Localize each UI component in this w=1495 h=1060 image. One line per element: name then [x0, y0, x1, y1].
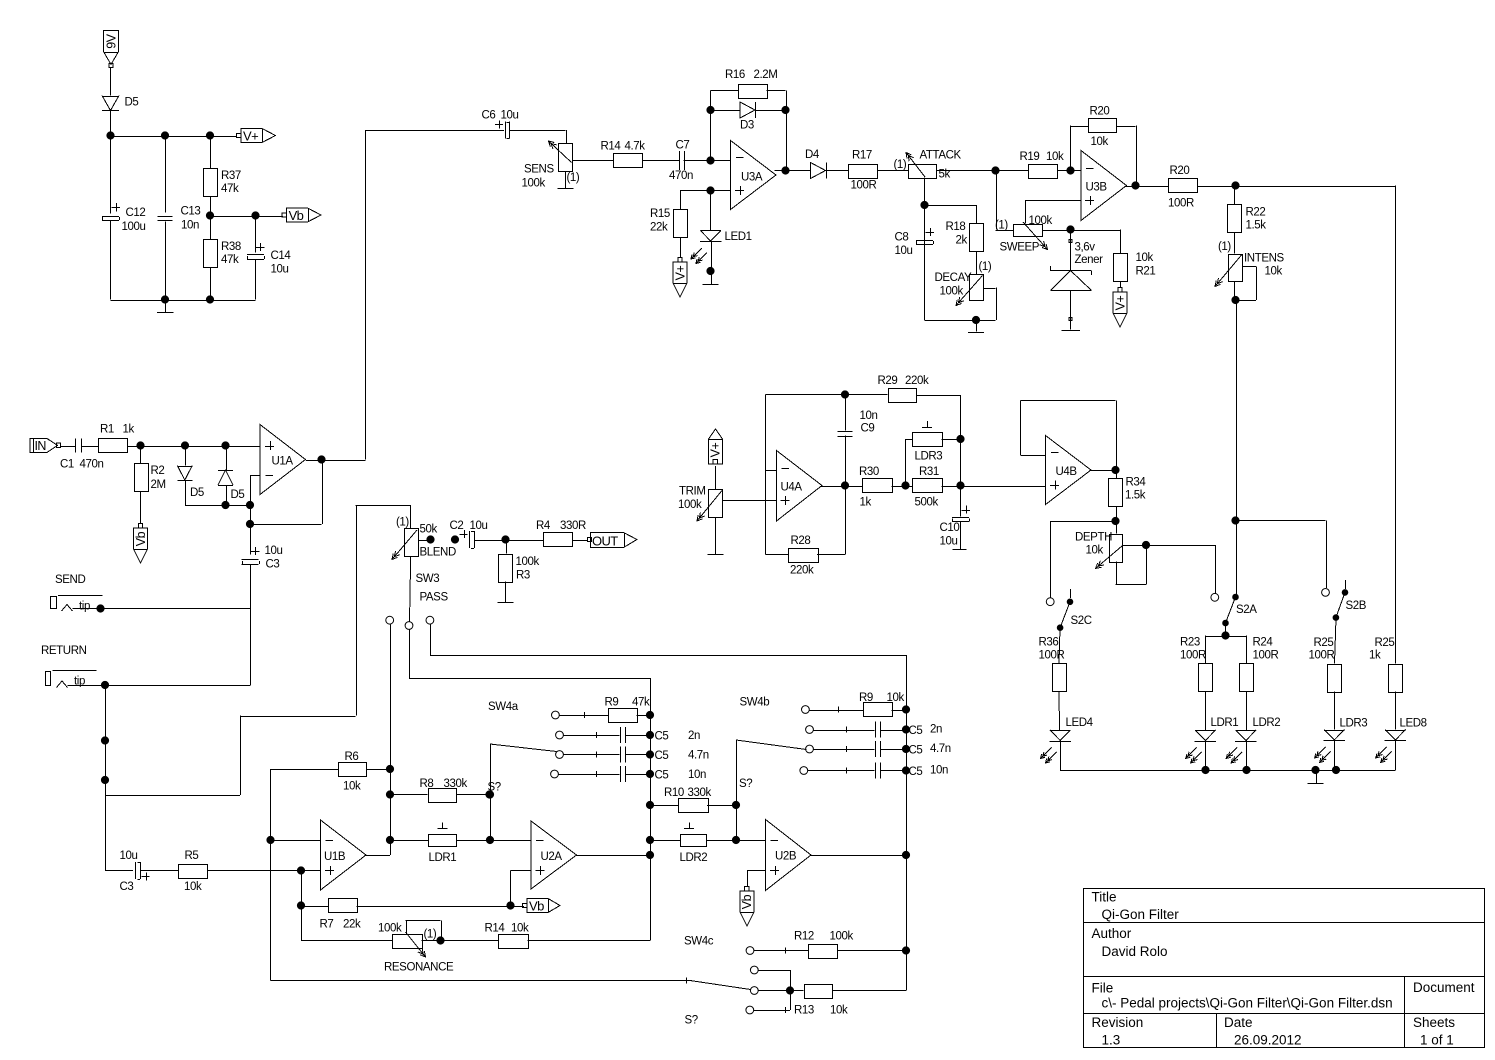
svg-text:330k: 330k: [688, 787, 712, 799]
wire fb junction: [250, 505, 252, 524]
wire C1 to R1: [81, 446, 98, 448]
wire C13 to gnd rail: [165, 222, 167, 300]
node U1B minus: [267, 836, 274, 843]
resistor R13 10k: [794, 985, 848, 1017]
pot ATTACK body: [894, 150, 962, 181]
node sweep bus top: [1232, 182, 1239, 189]
resistor R30 1k: [859, 466, 893, 509]
wire clip rail: [185, 505, 250, 507]
svg-text:Vb: Vb: [740, 894, 754, 909]
svg-text:LED8: LED8: [1400, 718, 1427, 730]
switch SW4c contact 4: [746, 1006, 754, 1014]
node lfo out: [957, 482, 964, 489]
resistor R38 47k: [204, 240, 241, 268]
capacitor C5 2n a: [621, 727, 701, 743]
wire SW3 c1 down: [390, 625, 392, 770]
switch S2B lever: [1333, 592, 1367, 620]
pot ATTACK arrow: [906, 153, 925, 178]
node sw4a bus 2: [646, 731, 653, 738]
switch S2B contact right: [1342, 580, 1348, 595]
diode D4: [805, 149, 827, 179]
svg-text:R18: R18: [946, 221, 966, 233]
svg-text:500k: 500k: [915, 497, 939, 509]
svg-text:R29: R29: [878, 375, 898, 387]
switch SW4c contact 1: [746, 947, 754, 955]
ldr LDR2 led: [1226, 717, 1280, 763]
node sw4a bus 1: [646, 711, 653, 718]
svg-text:R6: R6: [345, 751, 359, 763]
capacitor C13 10n: [158, 206, 201, 232]
svg-text:10k: 10k: [1086, 545, 1104, 557]
op-amp U2B: [766, 820, 812, 891]
resistor R9b 10k: [859, 692, 904, 717]
svg-text:2M: 2M: [151, 479, 166, 491]
wire R8 left: [390, 794, 428, 796]
svg-text:BLEND: BLEND: [420, 547, 456, 559]
pin tick sw4a1: [584, 712, 586, 718]
svg-text:100R: 100R: [1309, 650, 1335, 662]
svg-text:C7: C7: [676, 140, 690, 152]
switch SW4b contact 1: [802, 706, 810, 714]
svg-text:10k: 10k: [184, 881, 202, 893]
output flag OUT: [587, 537, 591, 541]
svg-text:RESONANCE: RESONANCE: [384, 962, 454, 974]
wire R6 right: [366, 769, 391, 855]
svg-text:IN: IN: [35, 439, 47, 453]
node return tip: [101, 681, 108, 688]
node rail c: [1312, 766, 1319, 773]
svg-text:2k: 2k: [956, 235, 968, 247]
zener pin marker 2: [1069, 317, 1072, 320]
node U1A fb: [246, 520, 253, 527]
wire R6 left: [271, 769, 339, 771]
wire RETURN tip: [68, 685, 251, 687]
node depth wiper: [1142, 541, 1149, 548]
wire S2C to R36: [1059, 628, 1060, 663]
svg-text:1k: 1k: [860, 497, 872, 509]
node return a: [101, 737, 108, 744]
wire R7 bus: [301, 871, 303, 941]
svg-text:1k: 1k: [123, 424, 135, 436]
svg-text:R22: R22: [1246, 207, 1266, 219]
pot SWEEP arrow: [1023, 222, 1048, 250]
jack RETURN: [46, 671, 97, 688]
capacitor C5 10n a: [621, 766, 707, 782]
pot INTENS body: [1218, 241, 1285, 282]
wire INTENS bottom: [1234, 281, 1236, 300]
resistor R5 10k: [179, 850, 208, 893]
svg-text:(1): (1): [567, 172, 580, 184]
title block: [1083, 889, 1485, 1048]
resistor R4 330R: [536, 520, 586, 547]
wire U2A plus: [511, 870, 531, 872]
wire TRIM wiper to U4A plus: [723, 500, 777, 502]
resistor R24 100R: [1240, 637, 1279, 692]
wire C3 to send: [250, 565, 252, 609]
led LED8: [1376, 718, 1427, 763]
resistor R20 10k fb: [1089, 106, 1117, 149]
node sw4a lever: [486, 791, 493, 798]
wire DEPTH loop: [1116, 545, 1147, 585]
resistor R1 1k: [99, 424, 135, 453]
svg-text:R30: R30: [859, 466, 879, 478]
svg-text:100R: 100R: [1168, 198, 1194, 210]
ldr LDR1 led: [1186, 717, 1239, 763]
svg-text:330R: 330R: [560, 520, 586, 532]
svg-text:DECAY: DECAY: [935, 272, 972, 284]
wire R31 to U4B: [942, 486, 1046, 488]
wire LDR3 to rail: [1334, 740, 1336, 770]
wire R37 to Vb node: [210, 196, 212, 216]
wire zener top: [1070, 230, 1072, 271]
wire C5 4.7n b to bus: [880, 749, 906, 751]
wire node to D5a: [185, 446, 187, 466]
svg-text:Sheets: Sheets: [1413, 1015, 1455, 1030]
svg-text:100k: 100k: [378, 923, 402, 935]
wire LED1 to gnd: [711, 241, 713, 285]
wire C5 2n b to bus: [880, 730, 906, 732]
node depth top: [1112, 517, 1119, 524]
wire C5 10n a to bus: [625, 774, 650, 776]
wire bus to R22: [1234, 186, 1236, 205]
pot SENS body: [522, 144, 580, 190]
svg-text:2n: 2n: [930, 724, 942, 736]
wire to R15: [680, 191, 682, 210]
ground LED1: [703, 284, 719, 286]
resistor R7 22k: [320, 899, 361, 931]
wire LDR2 right w: [707, 840, 766, 842]
svg-text:R16: R16: [725, 69, 745, 81]
svg-text:D5: D5: [125, 97, 139, 109]
ground R3: [498, 602, 514, 604]
wire U2B plus w: [747, 871, 765, 888]
capacitor C3 10u: [242, 545, 283, 571]
svg-text:(1): (1): [995, 220, 1008, 232]
pot RESONANCE arrow: [406, 932, 426, 957]
svg-text:C5: C5: [655, 731, 669, 743]
wire intens bus down: [1236, 300, 1238, 594]
node R30 R31: [902, 482, 909, 489]
wire SW4a c1 to R9: [560, 715, 609, 717]
wire D5a to clip rail: [185, 480, 187, 505]
wire sw4a bus: [650, 678, 652, 941]
wire D5 to V+ rail: [110, 111, 112, 136]
svg-text:C5: C5: [909, 725, 923, 737]
wire U3B out: [1125, 186, 1169, 188]
wire Vb to R38: [210, 216, 212, 240]
wire split right: [1246, 636, 1248, 664]
svg-text:10u: 10u: [501, 110, 519, 122]
wire SW4b c1 to R9b: [810, 710, 864, 712]
wire R28 left: [766, 554, 789, 556]
op-amp U1A: [260, 425, 306, 495]
wire SW3 c2 down: [409, 630, 651, 716]
svg-text:Author: Author: [1092, 926, 1132, 941]
svg-text:LDR2: LDR2: [680, 852, 708, 864]
svg-text:U4B: U4B: [1056, 466, 1078, 478]
wire SWEEP left: [996, 230, 1014, 232]
wire U1A out: [306, 460, 366, 462]
pin tick sw4c4: [785, 1007, 787, 1013]
wire V+ to TRIM: [715, 466, 717, 489]
svg-text:R3: R3: [516, 570, 530, 582]
svg-text:Document: Document: [1413, 980, 1475, 995]
svg-text:Revision: Revision: [1092, 1015, 1144, 1030]
svg-text:SWEEP: SWEEP: [1000, 242, 1040, 254]
wire bus to S2B: [1236, 521, 1327, 589]
svg-text:SW4a: SW4a: [488, 701, 519, 713]
wire U3B plus: [1025, 201, 1081, 224]
wire R10 right w: [707, 805, 736, 807]
node intens out: [1232, 296, 1239, 303]
wire R13 right w: [833, 951, 907, 991]
svg-text:4.7n: 4.7n: [930, 743, 951, 755]
wire s2 right vert: [736, 740, 738, 840]
wire SW4b c4 to C5: [808, 770, 875, 772]
svg-text:470n: 470n: [669, 170, 693, 182]
switch SW4a contact 4: [551, 770, 559, 778]
wire DEPTH wiper: [1123, 545, 1216, 594]
svg-text:C5: C5: [909, 745, 923, 757]
wire C9 bottom: [845, 436, 847, 486]
svg-text:R15: R15: [650, 208, 670, 220]
wire to R18: [925, 205, 977, 223]
pin tick sw4c1: [785, 948, 787, 954]
node send tip: [97, 605, 104, 612]
switch SW4a lever: [490, 744, 557, 752]
switch S2C contact right: [1067, 589, 1073, 605]
svg-text:100R: 100R: [1180, 650, 1206, 662]
svg-text:LDR3: LDR3: [1340, 718, 1368, 730]
svg-text:1.5k: 1.5k: [1125, 490, 1146, 502]
svg-text:S2C: S2C: [1071, 615, 1092, 627]
resistor R16 2.2M: [725, 69, 777, 99]
wire to S2C: [1050, 521, 1116, 598]
switch S2A contact right: [1233, 584, 1239, 600]
svg-text:R14: R14: [485, 923, 506, 935]
switch SW4a contact 1: [552, 711, 560, 719]
node LDR2 left: [646, 836, 653, 843]
vb pin marker: [523, 903, 527, 907]
switch SW4b contact 2: [806, 726, 814, 734]
wire LDR1 right: [457, 840, 531, 842]
wire U1B minus: [271, 840, 321, 842]
wire C9 top: [845, 395, 847, 431]
svg-text:C12: C12: [126, 207, 146, 219]
svg-text:(1): (1): [979, 261, 992, 273]
svg-text:3,6v: 3,6v: [1075, 242, 1096, 254]
svg-text:C3: C3: [266, 559, 280, 571]
resistor R23 100R: [1180, 637, 1213, 692]
capacitor C3b 10u: [120, 850, 150, 893]
svg-text:SENS: SENS: [524, 164, 554, 176]
node U2A out: [646, 851, 653, 858]
svg-text:V+: V+: [673, 265, 687, 280]
node stage1 fb a: [386, 765, 393, 772]
node V+ a: [107, 132, 114, 139]
capacitor C8 10u: [895, 228, 935, 257]
capacitor C12 100u: [102, 203, 145, 233]
wire supply gnd rail: [111, 300, 256, 302]
switch S2A lever: [1223, 597, 1258, 626]
svg-text:S?: S?: [685, 1015, 698, 1027]
svg-text:330k: 330k: [444, 778, 468, 790]
wire fb top right: [767, 91, 787, 171]
svg-text:100R: 100R: [851, 180, 877, 192]
node R10 left: [646, 801, 653, 808]
svg-text:V+: V+: [1113, 295, 1127, 310]
wire R15 to V+ flag: [680, 237, 682, 257]
wire sw4c lever long: [271, 980, 691, 982]
switch SW4b contact 4: [800, 767, 808, 775]
svg-text:SW4b: SW4b: [740, 697, 770, 709]
wire R20 to right bus: [1197, 186, 1396, 188]
svg-text:DEPTH: DEPTH: [1075, 532, 1112, 544]
jack SEND: [51, 596, 103, 613]
capacitor C1 470n: [60, 439, 103, 471]
op-amp U3A labels: [735, 158, 763, 196]
pin tick sw4a4: [596, 771, 598, 777]
svg-text:22k: 22k: [650, 222, 668, 234]
resistor R31 500k: [913, 466, 943, 509]
wire U4A out: [821, 486, 863, 488]
node in b: [181, 442, 188, 449]
op-amp U3A: [731, 141, 777, 210]
zener pin marker: [1069, 239, 1072, 242]
node U2B out: [902, 851, 909, 858]
svg-text:C6: C6: [482, 110, 496, 122]
wire SENS wiper to R14: [572, 160, 613, 162]
svg-text:R9: R9: [605, 697, 619, 709]
svg-text:10k: 10k: [830, 1005, 848, 1017]
wire R22 to INTENS: [1234, 233, 1236, 254]
svg-text:C1: C1: [60, 459, 74, 471]
svg-text:100k: 100k: [830, 931, 854, 943]
switch S2C contact left: [1046, 598, 1054, 606]
svg-text:LDR1: LDR1: [1211, 717, 1239, 729]
svg-text:Vb: Vb: [134, 531, 148, 546]
svg-text:C3: C3: [120, 881, 134, 893]
wire led gnd rail: [1060, 770, 1396, 772]
switch SW4c contact 2: [750, 966, 758, 974]
svg-text:Zener: Zener: [1075, 254, 1104, 266]
wire V+ to C12: [110, 136, 112, 214]
node R12 right: [902, 947, 909, 954]
wire U1A feedback: [250, 460, 323, 525]
wire BLEND to SW3: [410, 556, 412, 566]
svg-text:TRIM: TRIM: [679, 486, 706, 498]
svg-text:LDR2: LDR2: [1253, 717, 1281, 729]
wire Vb rail: [210, 216, 283, 218]
svg-text:C2: C2: [450, 520, 464, 532]
op-amp U4A: [777, 451, 823, 522]
ground C10: [953, 549, 967, 551]
svg-text:D4: D4: [805, 149, 820, 161]
capacitor C9 10n: [838, 410, 878, 437]
svg-text:PASS: PASS: [420, 592, 449, 604]
power flag Vb: [282, 208, 321, 223]
node s2a split: [1222, 632, 1229, 639]
wire R36 to LED4: [1058, 691, 1061, 730]
wire C2 to R4: [474, 540, 543, 542]
capacitor C2 10u: [450, 520, 488, 549]
wire LDR1 left: [390, 840, 429, 842]
svg-text:10k: 10k: [1265, 266, 1283, 278]
node blend wiper: [427, 536, 434, 543]
wire U4B fb: [1021, 401, 1117, 471]
wire LED8 to rail: [1395, 740, 1397, 770]
power flag Vb below U2B: [740, 886, 754, 926]
switch SW3 lever: [410, 566, 411, 622]
switch SW4b lever: [736, 740, 807, 750]
wire minus up to fb: [710, 91, 712, 161]
power flag Vb mid: [523, 899, 560, 914]
node gnd a: [161, 296, 168, 303]
wire R29 right: [917, 395, 961, 517]
node sw4b bus 3: [902, 745, 909, 752]
resistor R21 10k: [1114, 252, 1156, 282]
svg-text:10u: 10u: [895, 245, 913, 257]
svg-text:OUT: OUT: [592, 534, 618, 549]
node R7 left: [297, 902, 304, 909]
diode D5 clip b: [218, 470, 244, 501]
capacitor C6 10u: [482, 110, 519, 139]
svg-text:10u: 10u: [265, 545, 283, 557]
svg-text:R37: R37: [221, 170, 241, 182]
node rail b: [1243, 766, 1250, 773]
wire C7 to U3A minus: [684, 160, 731, 162]
node U4A out: [841, 482, 848, 489]
svg-text:D3: D3: [740, 120, 754, 132]
svg-text:R38: R38: [221, 241, 241, 253]
node sw4b bus 2: [902, 726, 909, 733]
resistor R19 10k: [1020, 151, 1064, 179]
wire R23 to LDR1: [1205, 691, 1207, 730]
svg-text:Title: Title: [1092, 890, 1117, 905]
wire Vb to C14: [255, 216, 257, 253]
resistor R15 22k: [650, 208, 688, 238]
svg-text:10u: 10u: [940, 536, 958, 548]
wire zener to gnd: [1070, 291, 1072, 330]
pin tick sw4c lever: [686, 978, 688, 984]
svg-text:C8: C8: [895, 232, 909, 244]
svg-text:100k: 100k: [678, 499, 702, 511]
pin tick sw3 c2: [409, 655, 411, 661]
svg-text:470n: 470n: [80, 459, 104, 471]
switch SW4c lever: [690, 981, 751, 990]
node sw4b bus 4: [902, 767, 909, 774]
wire s1 right vert: [490, 744, 492, 840]
svg-text:(1): (1): [396, 517, 409, 529]
svg-text:RETURN: RETURN: [41, 645, 87, 657]
op-amp U1A labels: [265, 441, 293, 476]
wire minus vertical: [765, 395, 767, 555]
switch SW3 contact 2: [405, 622, 413, 630]
resistor R25 1k: [1369, 637, 1403, 693]
switch S2A contact left: [1211, 593, 1219, 601]
svg-text:10u: 10u: [470, 520, 488, 532]
svg-text:100k: 100k: [940, 286, 964, 298]
node in a: [137, 442, 144, 449]
power flag V+ above TRIM: [709, 429, 723, 464]
svg-text:R8: R8: [420, 778, 434, 790]
wire 9V to D5: [110, 68, 112, 96]
svg-text:47k: 47k: [632, 697, 650, 709]
node out div: [502, 536, 509, 543]
wire R28 right: [817, 486, 846, 555]
node return b: [101, 776, 108, 783]
resistor R25 100R: [1309, 637, 1342, 693]
